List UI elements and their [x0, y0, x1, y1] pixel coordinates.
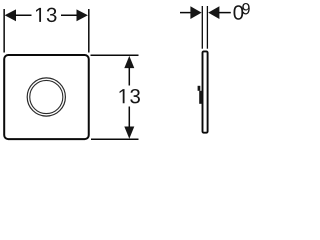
- thickness dimension: left leader line: [180, 12, 192, 14]
- thickness dimension: left arrow: [190, 6, 201, 19]
- width dimension: left arrow: [5, 9, 16, 21]
- width label digit 3: [47, 8, 57, 22]
- thickness dimension: left extension line: [201, 6, 203, 49]
- side view: rear cartridge bump upper block: [198, 86, 201, 91]
- height label digit 1: [120, 89, 125, 103]
- thickness label superscript 9: [242, 3, 249, 14]
- height dimension: top extension line: [91, 54, 139, 56]
- front view: button inner circle: [30, 80, 63, 113]
- width dimension: right extension line: [88, 9, 90, 53]
- width label digit 1: [36, 8, 41, 22]
- height dimension: up arrow: [124, 56, 134, 68]
- height dimension: line segments: [128, 67, 130, 85]
- thickness label digit 0: [233, 5, 243, 19]
- side view: plate profile: [203, 51, 208, 132]
- width dimension: left extension line: [3, 9, 5, 53]
- height label digit 3: [130, 89, 140, 103]
- thickness dimension: right arrow: [208, 6, 219, 19]
- front view: flush plate outline: [4, 55, 89, 139]
- thickness dimension: right leader line: [218, 12, 230, 14]
- front view: button outer circle: [27, 78, 65, 116]
- thickness dimension: right extension line: [206, 6, 208, 49]
- side view: rear cartridge bump lower block: [199, 91, 202, 104]
- height dimension: bottom extension line: [91, 138, 139, 140]
- width dimension: line segments: [15, 14, 32, 16]
- width dimension: right arrow: [77, 9, 88, 21]
- height dimension: down arrow: [124, 127, 134, 139]
